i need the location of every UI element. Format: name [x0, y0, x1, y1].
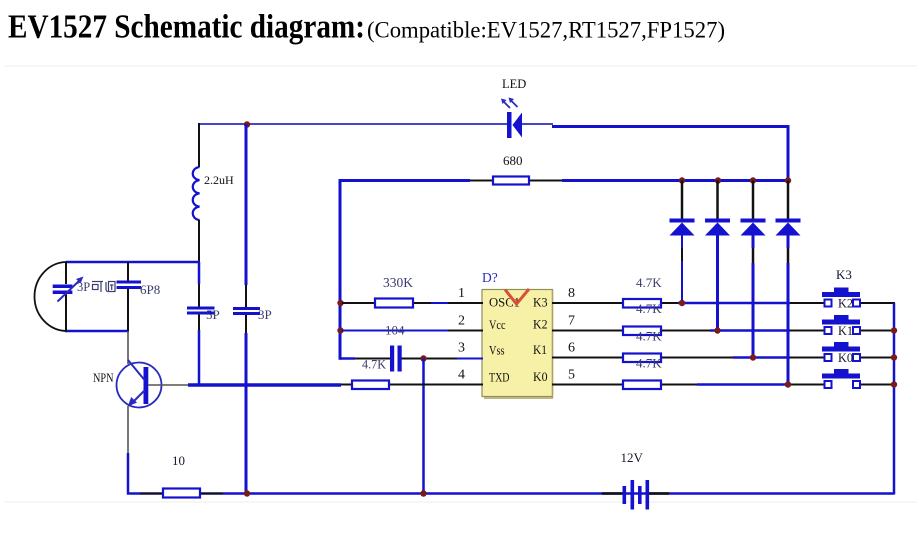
frame line top — [4, 65, 917, 67]
node row3 diode — [750, 354, 756, 360]
LED D-LED — [501, 77, 526, 138]
wire right drop to diode rail — [787, 127, 790, 181]
svg-text:6: 6 — [568, 341, 575, 356]
wire right rail — [893, 303, 896, 495]
resistor R8 10 — [163, 453, 200, 498]
node row2 diode — [714, 327, 720, 333]
svg-text:K0: K0 — [838, 351, 853, 365]
wire vertical from top-left corner — [198, 123, 200, 167]
wire vertical 5P branch — [198, 262, 201, 307]
node rail row1 — [337, 300, 343, 306]
svg-text:4.7K: 4.7K — [636, 356, 662, 371]
svg-text:K3: K3 — [836, 267, 852, 282]
svg-text:6P8: 6P8 — [140, 282, 160, 297]
svg-text:EV1527 Schematic diagram:: EV1527 Schematic diagram: — [8, 9, 365, 46]
battery BT1 12V — [621, 450, 650, 510]
resistor R2 330K — [375, 275, 413, 308]
svg-text:3P: 3P — [258, 307, 272, 322]
svg-text:4.7K: 4.7K — [636, 275, 662, 290]
svg-text:TXD: TXD — [489, 370, 510, 385]
label 3P adjustable — [77, 280, 115, 294]
svg-text:K0: K0 — [533, 369, 548, 384]
svg-text:4.7K: 4.7K — [636, 329, 662, 344]
node bottom rail mid — [420, 490, 426, 496]
svg-text:8: 8 — [568, 286, 575, 301]
node right rail row3 — [891, 354, 897, 360]
wire vertical 3P branch — [245, 124, 248, 307]
node right rail row2 — [891, 327, 897, 333]
wire base row thick — [188, 383, 341, 387]
capacitor C3 3P — [233, 307, 272, 322]
svg-text:LED: LED — [502, 77, 526, 91]
wire top right segment — [552, 125, 790, 128]
resistor R5 4.7K — [623, 327, 661, 336]
node rail row2 — [337, 327, 343, 333]
wire row2 left — [341, 330, 483, 332]
svg-text:104: 104 — [385, 323, 405, 338]
node row3 junction — [420, 355, 426, 361]
node row1 diode — [679, 300, 685, 306]
IC U1 — [482, 290, 553, 399]
switch S3 — [822, 342, 860, 365]
svg-text:Vss: Vss — [489, 343, 505, 358]
node bottom rail 3P — [244, 490, 250, 496]
svg-text:4.7K: 4.7K — [636, 301, 662, 316]
diode D2 — [705, 181, 730, 332]
svg-text:Vcc: Vcc — [489, 317, 506, 332]
svg-text:NPN: NPN — [93, 370, 114, 385]
switch S1 — [822, 288, 860, 311]
wire LED to right — [521, 123, 553, 125]
svg-text:K2: K2 — [533, 317, 548, 332]
svg-text:5P: 5P — [206, 307, 220, 322]
transistor Q1 NPN — [93, 360, 162, 408]
diode D3 — [741, 181, 766, 359]
wire loop bottom line — [65, 330, 129, 333]
red check mark — [505, 289, 529, 304]
node right rail row4 — [891, 381, 897, 387]
svg-text:10: 10 — [172, 453, 185, 468]
node diode rail 2 — [715, 177, 721, 183]
svg-text:2.2uH: 2.2uH — [204, 173, 234, 187]
svg-text:5: 5 — [568, 368, 575, 383]
inductor L1 2.2uH — [193, 167, 234, 220]
svg-text:12V: 12V — [621, 450, 644, 465]
resistor R6 4.7K — [623, 354, 661, 363]
variable capacitor CV 3P — [53, 262, 84, 331]
svg-text:4: 4 — [458, 368, 465, 383]
svg-text:2: 2 — [458, 314, 465, 329]
resistor R4 4.7K — [623, 299, 661, 308]
wire inductor to loop — [198, 220, 200, 263]
wire collector lead grey — [127, 331, 129, 364]
node diode rail 1 — [679, 177, 685, 183]
svg-text:K1: K1 — [533, 342, 547, 357]
svg-text:7: 7 — [568, 314, 575, 329]
wire row3 left — [340, 357, 483, 360]
node junction top — [244, 121, 250, 127]
wire vertical row3 to bottom — [422, 359, 425, 494]
wire row2 right — [552, 330, 894, 332]
wire bottom rail — [127, 492, 894, 495]
svg-text:(Compatible:EV1527,RT1527,FP15: (Compatible:EV1527,RT1527,FP1527) — [367, 18, 725, 43]
antenna arc — [35, 262, 68, 331]
wire loop top line — [66, 261, 200, 264]
wire base lead grey — [148, 384, 190, 386]
node diode rail 3 — [750, 177, 756, 183]
svg-text:K2: K2 — [838, 297, 853, 311]
wire emitter lead — [127, 406, 129, 454]
svg-text:4.7K: 4.7K — [362, 357, 387, 372]
svg-text:3: 3 — [458, 341, 465, 356]
wire top LED rail thin — [199, 123, 507, 125]
svg-text:330K: 330K — [383, 275, 413, 290]
capacitor C4 104 — [390, 346, 402, 372]
node row4 diode — [785, 381, 791, 387]
title — [8, 9, 725, 46]
capacitor C2 5P — [187, 307, 220, 323]
svg-text:K1: K1 — [838, 324, 853, 338]
svg-text:680: 680 — [503, 153, 523, 168]
svg-text:1: 1 — [458, 286, 465, 301]
resistor R1 680 — [493, 153, 529, 185]
frame line bottom — [4, 501, 917, 503]
switch S2 — [822, 315, 860, 338]
wire row4 right — [552, 384, 894, 386]
resistor R7 4.7K — [623, 381, 661, 390]
wire 680 row — [339, 179, 789, 182]
diode D1 — [670, 181, 695, 304]
wire left rail — [339, 179, 342, 360]
wire row4 left — [341, 384, 483, 386]
capacitor C1 6P8 — [117, 262, 161, 331]
diode D4 — [776, 181, 801, 385]
wire row3 right — [552, 357, 894, 359]
svg-text:D?: D? — [482, 270, 498, 285]
switch S4 — [822, 369, 860, 388]
svg-text:3P: 3P — [77, 280, 90, 294]
resistor R3 4.7K — [352, 381, 389, 390]
svg-text:K3: K3 — [533, 295, 548, 310]
node diode rail 4 — [785, 177, 791, 183]
wire row1 left — [342, 302, 483, 304]
wire row1 right — [552, 302, 895, 304]
